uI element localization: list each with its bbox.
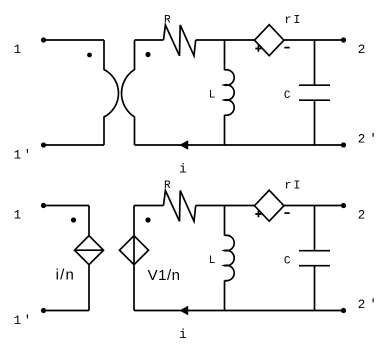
resistor R (bottom circuit) (164, 191, 196, 222)
wire terminal 1' to i/n source (bottom circuit) (44, 310, 90, 312)
resistor R (top circuit) (164, 25, 196, 56)
inductor L coil (top circuit) (225, 70, 235, 116)
svg-text:rI: rI (284, 13, 302, 27)
wire bottom of i/n source (88, 265, 90, 311)
capacitor C plates (top circuit) (299, 85, 330, 100)
node 1' terminal dot (top circuit) (41, 142, 46, 147)
inductor L coil (bottom circuit) (225, 235, 235, 281)
node 1 terminal dot (top circuit) (41, 37, 46, 42)
bottom wire V1/n to terminal 2' (bottom circuit) (134, 310, 344, 312)
transformer secondary winding (122, 40, 135, 145)
rI minus sign (bottom circuit) (284, 212, 289, 214)
wire rI to terminal 2 (284, 39, 344, 41)
wire top into i/n source (88, 206, 90, 236)
wire V1/n to resistor R (bottom circuit) (134, 205, 164, 207)
rI plus sign (top circuit) (255, 45, 261, 51)
svg-text:i: i (179, 327, 187, 342)
svg-text:C: C (284, 90, 291, 102)
wire terminal 1' to primary bottom (44, 144, 105, 146)
current arrow i (top circuit) (179, 140, 188, 149)
wire resistor to node A (196, 39, 255, 41)
svg-text:1: 1 (14, 43, 22, 57)
node 2 terminal dot (top circuit) (341, 37, 346, 42)
svg-text:1': 1' (14, 314, 32, 328)
svg-text:L: L (209, 89, 216, 101)
capacitor C branch wire bottom (bottom circuit) (314, 266, 316, 311)
capacitor C branch wire top (bottom circuit) (314, 206, 316, 251)
svg-text:2: 2 (358, 208, 366, 222)
node 2 terminal dot (bottom circuit) (341, 203, 346, 208)
wire terminal 1 to primary top (44, 39, 105, 41)
bottom wire secondary to terminal 2' (top circuit) (135, 144, 344, 146)
polarity dot left (bottom circuit) (71, 217, 76, 222)
node 2' terminal dot (top circuit) (341, 142, 346, 147)
capacitor C branch wire top (top circuit) (314, 40, 316, 85)
wire rI to terminal 2 (bottom circuit) (284, 205, 344, 207)
rI minus sign (top circuit) (284, 47, 289, 49)
svg-text:R: R (164, 15, 171, 27)
dependent source rI diamond (top circuit) (255, 25, 284, 56)
dependent current source i/n diamond (75, 236, 104, 265)
svg-text:2': 2' (358, 133, 377, 147)
transformer primary winding (104, 40, 119, 145)
node 1' terminal dot (bottom circuit) (41, 308, 46, 313)
inductor L branch wire bottom (top circuit) (224, 115, 226, 145)
inductor L branch wire top (top circuit) (224, 40, 226, 70)
inductor L branch wire top (bottom circuit) (224, 206, 226, 236)
svg-text:L: L (209, 255, 216, 267)
wire secondary top to resistor R (135, 39, 164, 41)
polarity dot right (bottom circuit) (145, 217, 150, 222)
wire terminal 1 to i/n source (bottom circuit) (44, 205, 90, 207)
svg-text:V1/n: V1/n (148, 267, 181, 284)
dependent voltage source V1/n branch wire (133, 206, 135, 311)
svg-text:1: 1 (14, 209, 22, 223)
node 2' terminal dot (bottom circuit) (341, 308, 346, 313)
current arrow i (bottom circuit) (179, 306, 188, 315)
wire resistor to node A (bottom circuit) (196, 205, 255, 207)
transformer primary polarity dot (87, 53, 92, 58)
svg-text:R: R (164, 180, 171, 192)
dependent source rI diamond (bottom circuit) (255, 190, 284, 221)
svg-text:C: C (284, 256, 291, 268)
svg-text:i/n: i/n (56, 266, 75, 283)
dependent voltage source V1/n diamond (120, 236, 149, 265)
inductor L branch wire bottom (bottom circuit) (224, 281, 226, 311)
transformer secondary polarity dot (145, 52, 150, 57)
svg-text:2': 2' (358, 298, 377, 312)
capacitor C plates (bottom circuit) (299, 251, 330, 266)
i/n source internal bar (75, 249, 104, 251)
svg-text:1': 1' (14, 148, 32, 162)
rI plus sign (bottom circuit) (255, 211, 261, 217)
svg-text:rI: rI (284, 178, 302, 192)
capacitor C branch wire bottom (top circuit) (314, 100, 316, 145)
svg-text:i: i (179, 161, 187, 176)
svg-text:2: 2 (358, 43, 366, 57)
node 1 terminal dot (bottom circuit) (41, 203, 46, 208)
